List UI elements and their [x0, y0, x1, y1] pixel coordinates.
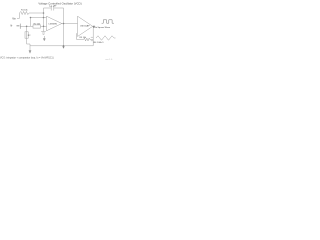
svg-text:Vr: Vr [10, 25, 12, 28]
svg-text:rev 1.0: rev 1.0 [106, 58, 113, 61]
svg-text:Vin: Vin [12, 17, 16, 20]
svg-text:LM358N: LM358N [49, 23, 58, 25]
svg-text:R3 10k: R3 10k [80, 37, 88, 39]
svg-text:Voltage Controlled Oscillator: Voltage Controlled Oscillator (VCO) [38, 1, 81, 5]
svg-text:VCO: integrator + comparator l: VCO: integrator + comparator loop, fo = … [0, 56, 54, 59]
svg-text:R2 10k: R2 10k [34, 23, 42, 25]
svg-text:LM311AP: LM311AP [80, 24, 90, 27]
svg-text:Vout Square Wave: Vout Square Wave [93, 26, 111, 29]
svg-text:R1 10k: R1 10k [21, 10, 29, 12]
svg-text:R4 100kO: R4 100kO [94, 42, 104, 44]
svg-text:C1 1nF: C1 1nF [49, 5, 57, 7]
svg-text:R2: R2 [28, 35, 31, 37]
